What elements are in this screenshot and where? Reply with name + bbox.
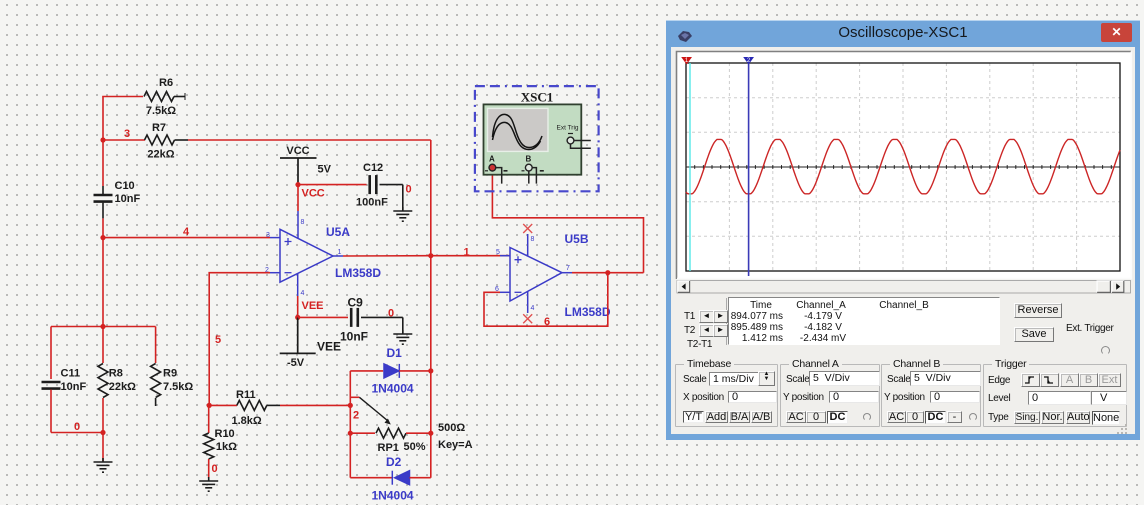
potentiometer RP1 [350,428,431,438]
node 3 junction [100,137,105,142]
op-amp U5B [500,234,572,313]
wire node1 to U5B pin5 [431,255,510,257]
svg-text:U5A: U5A [326,225,350,239]
svg-text:100nF: 100nF [356,197,388,209]
svg-text:C12: C12 [363,162,383,174]
cursor readout box [728,297,1000,345]
svg-text:1: 1 [338,249,342,256]
ground bottom left [94,458,113,472]
node RP1 right [428,431,433,436]
svg-text:C9: C9 [348,296,364,310]
instrument XSC1 box [475,86,599,191]
node U5B output junction [605,270,610,275]
svg-text:3: 3 [266,232,270,239]
svg-text:VEE: VEE [317,340,341,354]
svg-text:5V: 5V [318,164,332,176]
node left rail junction [100,324,105,329]
svg-text:R9: R9 [163,368,177,380]
wire VCC to C12 [298,184,367,186]
node VEE junction [295,315,300,320]
node bottom left [100,430,105,435]
svg-text:VCC: VCC [286,145,309,157]
svg-text:R8: R8 [109,368,123,380]
svg-text:10nF: 10nF [340,330,368,344]
wire net1 R7 to right trunk [188,139,431,141]
cursor 1 cyan [689,63,691,271]
svg-text:1.8kΩ: 1.8kΩ [232,415,262,427]
Ext. Trigger label [1066,323,1114,334]
svg-text:0: 0 [388,308,394,320]
capacitor C9 [351,308,403,327]
svg-text:0: 0 [406,184,412,196]
svg-text:C11: C11 [61,368,81,380]
cursor marker 2 [743,57,754,65]
wire U5B feedback [484,273,608,327]
svg-text:4: 4 [183,226,190,238]
node 2 junction [348,403,353,408]
svg-text:4: 4 [531,305,535,312]
svg-text:B: B [526,155,532,164]
Trigger group [983,364,1127,427]
channel A waveform [686,139,1120,193]
svg-text:6: 6 [544,316,550,328]
wire VCC node to pin8 [297,185,299,211]
horizontal scrollbar [677,281,1131,294]
wire C9 to ground [402,317,404,333]
node VCC junction [295,182,300,187]
wire U5A output to node1 [343,255,431,257]
svg-text:VEE: VEE [302,300,324,312]
svg-text:Ext Trig: Ext Trig [557,125,579,132]
Channel B group [881,364,981,427]
wire VEE to C9 [298,316,348,318]
wire C10 to node4 trunk [102,218,104,326]
wire net3 left trunk top [102,97,104,187]
Save button [1014,327,1054,342]
graticule border [686,63,1120,271]
resistor R7 [145,135,189,145]
wire D1 left [350,370,383,372]
svg-text:R10: R10 [215,428,235,440]
potentiometer RP1 wiper [359,397,390,424]
resistor R10 [204,405,214,478]
ext trigger radio arc [1101,346,1110,355]
svg-text:0: 0 [212,463,218,475]
wire U5B output [572,272,644,274]
resize grip [1117,424,1129,434]
wire C12 to ground [402,185,404,210]
time axis with ticks [686,165,1120,169]
svg-text:RP1: RP1 [378,442,399,454]
ground R10 [199,477,218,491]
T1 T2 cursor button cluster [673,298,727,345]
svg-text:0: 0 [74,421,80,433]
svg-text:VCC: VCC [302,188,325,200]
resistor R11 [209,400,280,410]
scope display panel [677,52,1132,280]
capacitor C10 [94,186,113,218]
node 4 junction [100,235,105,240]
ground C12 [393,207,412,221]
wire top corner to R6 [102,96,143,98]
wire net5 inverting [209,273,270,406]
svg-text:5: 5 [215,334,221,346]
svg-text:3: 3 [124,128,130,140]
cursor marker 1 [681,57,692,65]
svg-text:R7: R7 [152,122,166,134]
svg-text:8: 8 [531,236,535,243]
svg-text:8: 8 [301,219,305,226]
svg-text:R11: R11 [236,389,256,401]
Reverse button [1014,303,1062,318]
node 5 junction [207,403,212,408]
resistor R8 [98,327,108,433]
svg-text:2: 2 [353,410,359,422]
svg-text:5: 5 [496,249,500,256]
no-connect X pin8 U5B [523,224,532,233]
svg-text:7.5kΩ: 7.5kΩ [146,105,176,117]
wire bottom left rail [51,432,103,434]
svg-text:22kΩ: 22kΩ [147,149,174,161]
svg-text:D2: D2 [386,455,402,469]
Timebase group [675,364,778,427]
svg-text:Key=A: Key=A [438,439,473,451]
svg-text:7.5kΩ: 7.5kΩ [163,381,193,393]
wire node2 trunk [349,371,351,478]
svg-text:U5B: U5B [565,232,589,246]
resistor R9 [151,327,161,407]
wire right trunk lower [430,256,432,478]
terminal A XSC1 [485,164,508,183]
node D1 right [428,368,433,373]
svg-text:A: A [489,155,495,164]
terminal B XSC1 [522,164,544,183]
svg-text:10nF: 10nF [115,193,141,205]
Channel A group [780,364,880,427]
diode D2 [392,471,409,485]
svg-text:1N4004: 1N4004 [372,382,414,396]
op-amp U5A [270,211,343,296]
cursor 2 blue [748,63,750,276]
svg-text:4: 4 [301,290,305,297]
wire right trunk vertical [430,140,432,256]
svg-text:7: 7 [566,265,570,272]
svg-text:R6: R6 [159,77,173,89]
node 1 junction [428,253,433,258]
wire node3 to R7 [103,139,145,141]
svg-text:1N4004: 1N4004 [372,489,414,503]
svg-text:LM358D: LM358D [565,305,611,319]
wire D2 right [410,477,431,479]
wire R11 to node2 [280,404,350,406]
wire to ground left [102,433,104,462]
svg-text:LM358D: LM358D [335,266,381,280]
no-connect X pin4 U5B [523,314,532,323]
svg-text:10nF: 10nF [61,381,87,393]
svg-text:-5V: -5V [287,357,305,369]
wire net4 to U5A pin3 [103,237,270,239]
wire scope probe [492,171,643,273]
resistor R6 [144,92,185,102]
svg-text:50%: 50% [404,441,426,453]
svg-text:22kΩ: 22kΩ [109,381,136,393]
terminal ExtTrig XSC1 [567,134,591,149]
capacitor C11 [42,327,61,433]
svg-text:XSC1: XSC1 [521,90,554,105]
svg-text:C10: C10 [115,180,135,192]
power VCC symbol [280,158,317,185]
ground C9 [393,330,412,344]
capacitor C12 [370,175,403,194]
wire wiper step [350,396,359,398]
diode D1 [384,364,399,378]
wire D2 bottom [350,477,392,479]
node RP1 left [348,431,353,436]
graticule grid [686,63,1120,271]
wire VEE pin4 [297,296,299,317]
power VEE symbol [280,317,316,353]
svg-text:D1: D1 [387,346,403,360]
svg-text:500Ω: 500Ω [438,422,465,434]
svg-text:1kΩ: 1kΩ [216,441,237,453]
wire y326 rail [51,326,156,328]
wire D1 right [399,370,431,372]
